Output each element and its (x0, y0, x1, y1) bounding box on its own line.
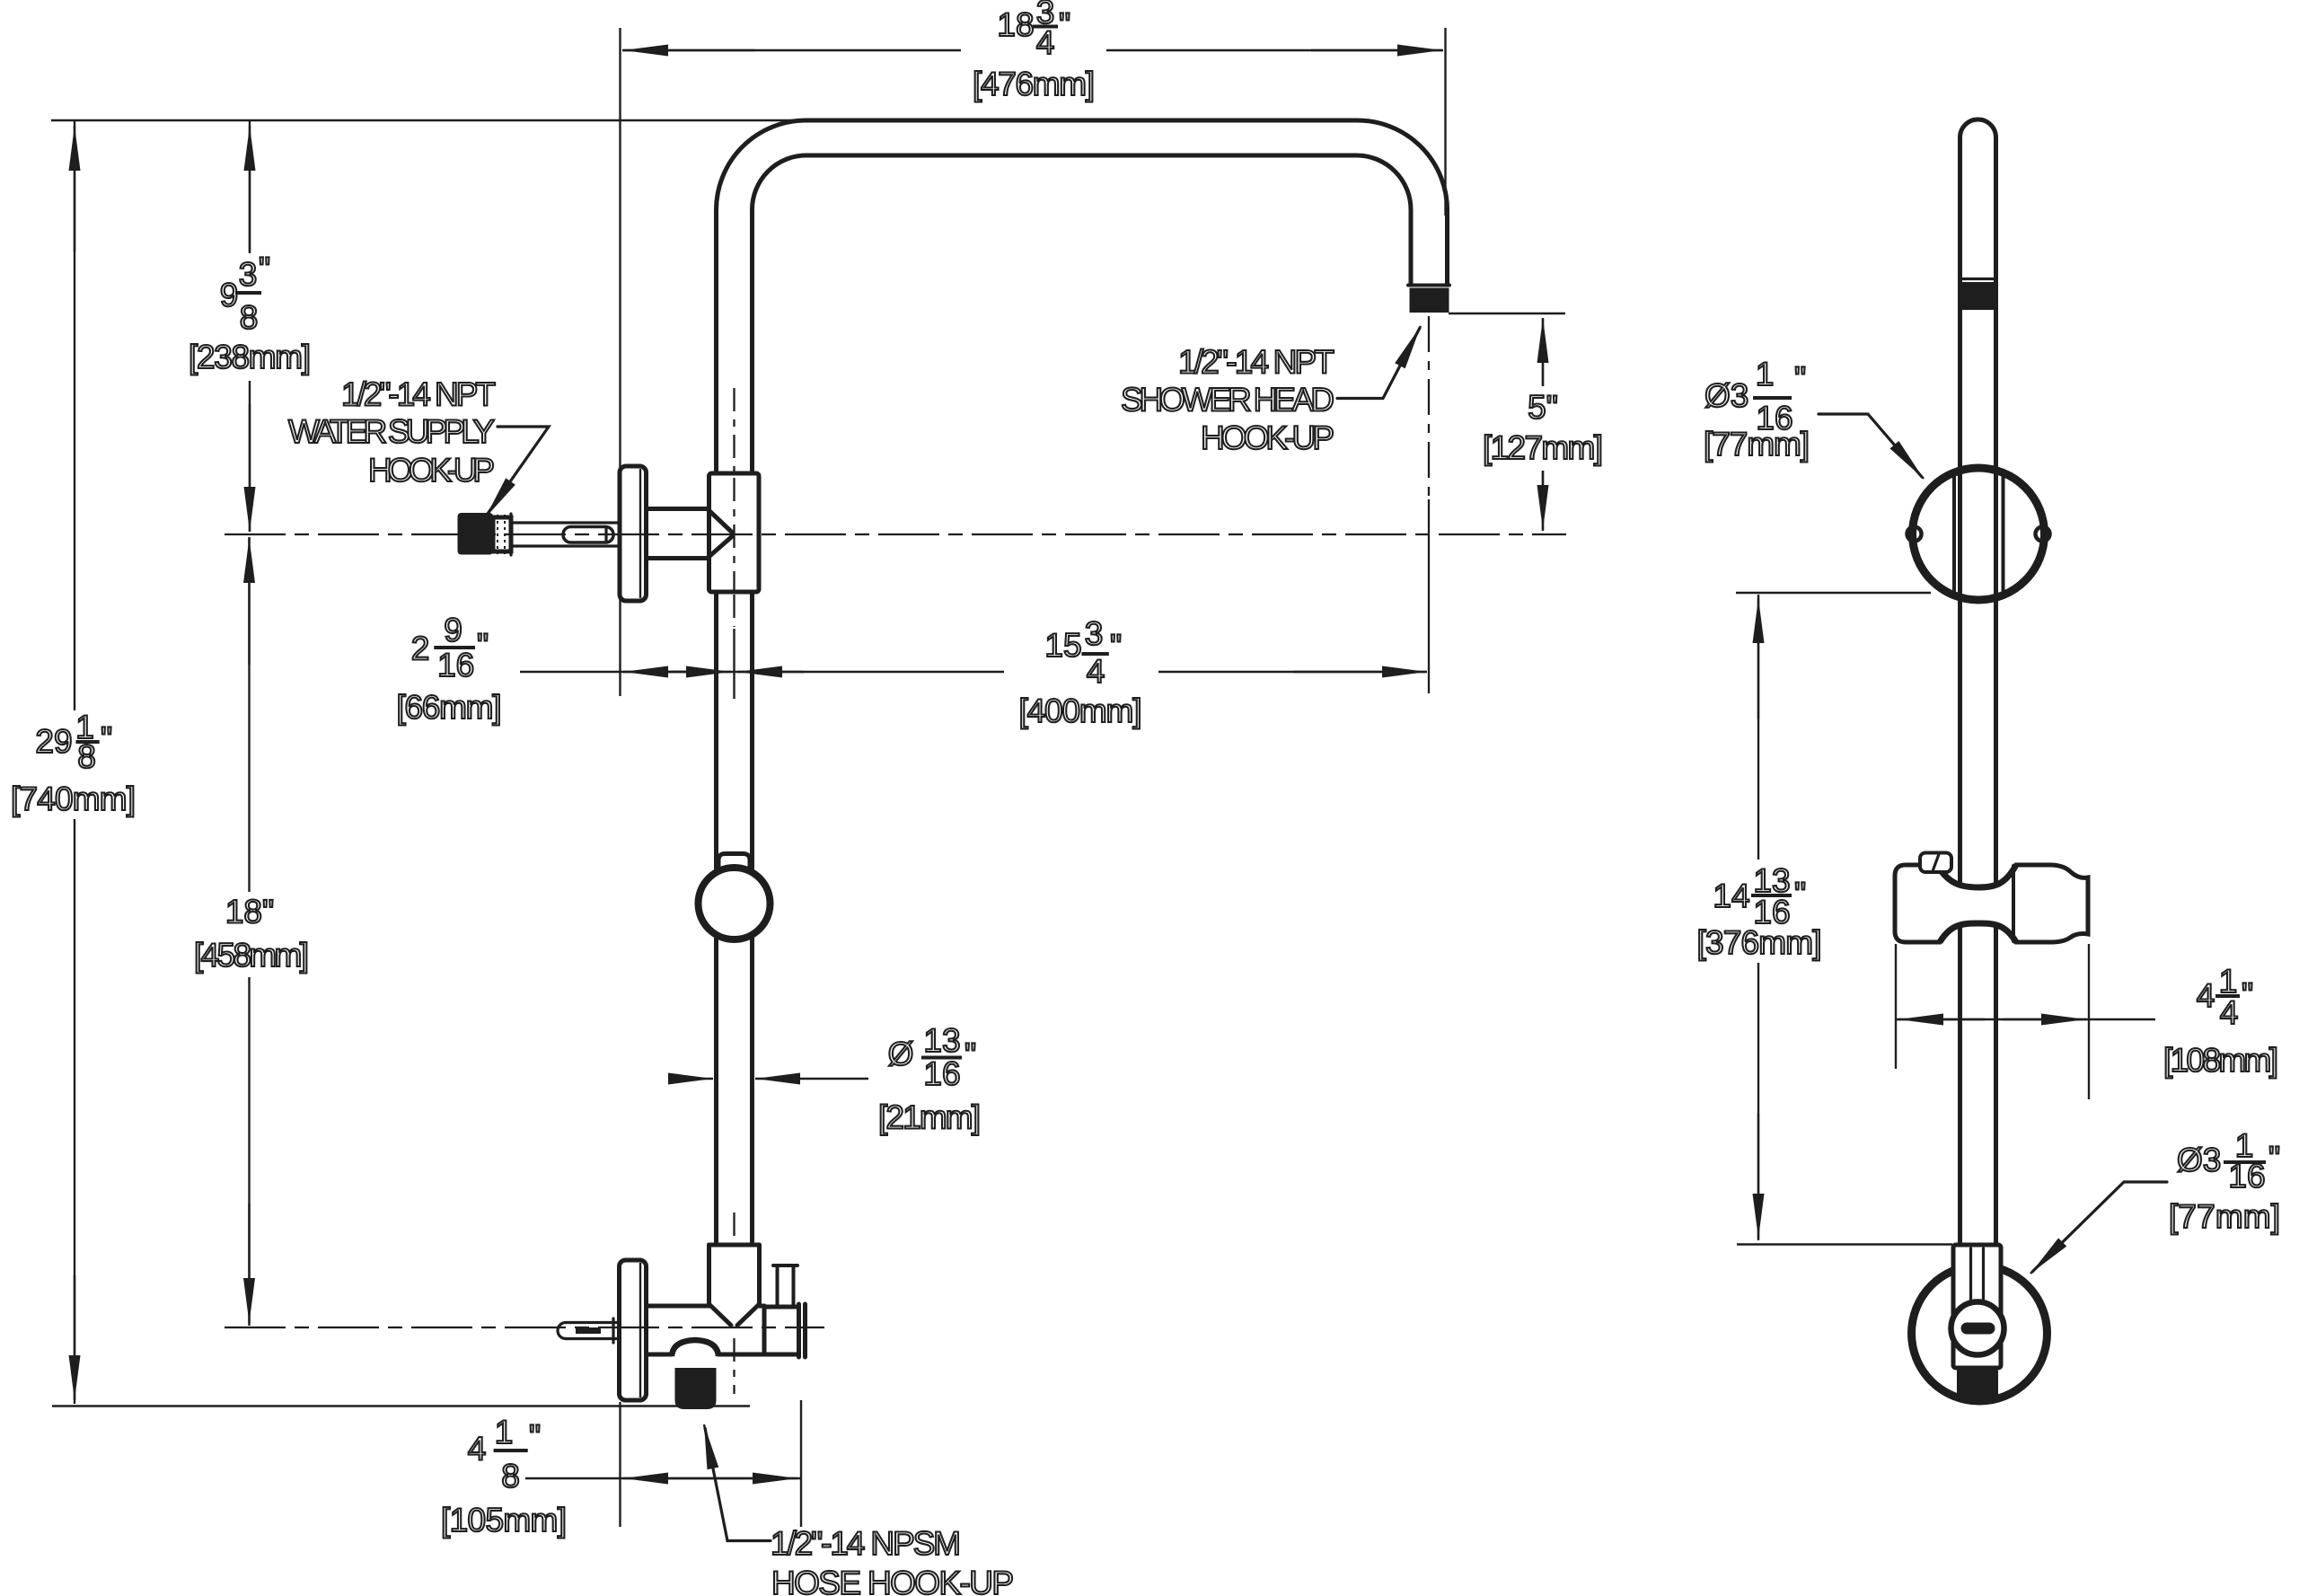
svg-text:": " (965, 1036, 976, 1073)
svg-text:1: 1 (1756, 356, 1775, 392)
svg-text:Ø: Ø (888, 1036, 914, 1072)
svg-text:9: 9 (444, 612, 462, 648)
svg-text:[66mm]: [66mm] (397, 689, 502, 726)
svg-text:4: 4 (1087, 653, 1105, 690)
svg-text:": " (1794, 360, 1806, 397)
svg-text:": " (2242, 976, 2253, 1013)
svg-text:8: 8 (240, 299, 259, 336)
svg-text:8: 8 (501, 1458, 520, 1495)
svg-text:2: 2 (411, 630, 430, 666)
svg-text:1/2"-14 NPT: 1/2"-14 NPT (1178, 344, 1334, 381)
svg-text:14: 14 (1713, 877, 1749, 914)
svg-text:HOOK-UP: HOOK-UP (368, 452, 495, 489)
svg-text:": " (259, 251, 270, 287)
svg-text:[21mm]: [21mm] (878, 1099, 981, 1136)
svg-text:[127mm]: [127mm] (1483, 429, 1603, 466)
svg-text:4: 4 (2220, 994, 2239, 1031)
svg-text:4: 4 (1036, 24, 1055, 61)
svg-text:WATER SUPPLY: WATER SUPPLY (288, 413, 495, 450)
svg-text:8: 8 (77, 738, 96, 775)
svg-text:": " (1110, 628, 1122, 665)
svg-text:": " (1059, 6, 1070, 43)
svg-text:1/2"-14 NPT: 1/2"-14 NPT (341, 375, 496, 412)
svg-text:4: 4 (468, 1431, 487, 1468)
svg-text:5": 5" (1528, 389, 1558, 426)
svg-text:HOOK-UP: HOOK-UP (1201, 419, 1334, 456)
svg-text:15: 15 (1044, 627, 1081, 664)
svg-text:[77mm]: [77mm] (1704, 426, 1810, 463)
svg-text:[376mm]: [376mm] (1697, 924, 1822, 961)
svg-text:29: 29 (35, 723, 72, 760)
svg-text:[238mm]: [238mm] (189, 339, 311, 375)
svg-text:[108mm]: [108mm] (2163, 1042, 2278, 1079)
svg-text:[458mm]: [458mm] (194, 937, 309, 974)
svg-text:1/2"-14 NPSM: 1/2"-14 NPSM (771, 1525, 961, 1562)
svg-text:": " (1794, 876, 1806, 913)
svg-text:Ø3: Ø3 (1704, 377, 1748, 414)
svg-text:HOSE HOOK-UP: HOSE HOOK-UP (771, 1565, 1014, 1596)
svg-text:": " (2268, 1140, 2280, 1177)
svg-text:9: 9 (220, 277, 239, 313)
svg-text:[77mm]: [77mm] (2169, 1198, 2280, 1235)
svg-text:16: 16 (437, 647, 474, 683)
svg-text:13: 13 (923, 1022, 960, 1059)
svg-text:[400mm]: [400mm] (1019, 692, 1142, 729)
svg-text:": " (477, 627, 489, 664)
svg-text:Ø3: Ø3 (2177, 1142, 2221, 1178)
svg-text:16: 16 (2228, 1158, 2265, 1195)
svg-text:4: 4 (2197, 977, 2215, 1014)
svg-text:SHOWER HEAD: SHOWER HEAD (1121, 382, 1334, 419)
svg-text:": " (529, 1418, 541, 1455)
svg-text:3: 3 (239, 256, 258, 293)
svg-text:[105mm]: [105mm] (441, 1502, 567, 1539)
svg-text:18": 18" (225, 894, 274, 930)
svg-text:1: 1 (495, 1414, 514, 1451)
svg-text:[740mm]: [740mm] (11, 780, 136, 817)
svg-text:": " (101, 720, 112, 757)
svg-text:[476mm]: [476mm] (973, 66, 1095, 102)
svg-text:18: 18 (997, 6, 1034, 43)
svg-text:16: 16 (923, 1055, 960, 1092)
svg-text:3: 3 (1085, 615, 1104, 652)
